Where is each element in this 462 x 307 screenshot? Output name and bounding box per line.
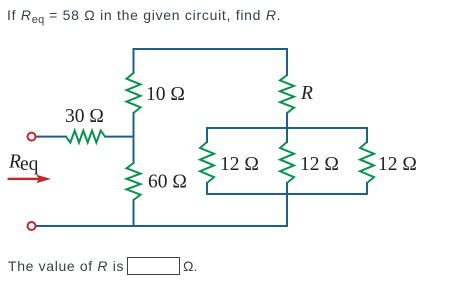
- wire: parallel box left edge leads: [206, 128, 208, 194]
- terminal: top input terminal: [28, 133, 36, 141]
- wire: parallel box right edge leads: [366, 128, 368, 194]
- svg-text:12 Ω: 12 Ω: [300, 154, 339, 175]
- resistor 12-ohm left: [200, 142, 214, 183]
- resistor 30-ohm: [66, 131, 105, 143]
- wire: middle 12-ohm bottom lead: [286, 183, 288, 194]
- resistor R: [280, 75, 294, 113]
- resistor 12-ohm middle: [280, 142, 294, 183]
- wire: between node A and 60-ohm top lead: [133, 137, 135, 163]
- arrow: Req direction arrow: [8, 175, 51, 184]
- wire: node A up to 10-ohm bottom lead: [133, 113, 135, 137]
- title text: [7, 7, 281, 23]
- wire: 60-ohm bottom lead down to bottom rail: [133, 200, 135, 226]
- omega unit after box: [183, 258, 197, 274]
- terminal: bottom input terminal: [28, 222, 36, 230]
- resistor 10-ohm: [127, 73, 141, 113]
- svg-text:60 Ω: 60 Ω: [148, 172, 187, 193]
- svg-text:12 Ω: 12 Ω: [220, 154, 259, 175]
- wire: bottom rail from bottom terminal to middle branch: [36, 194, 287, 226]
- wire: parallel box top edge: [207, 127, 367, 129]
- svg-text:12 Ω: 12 Ω: [378, 154, 417, 175]
- svg-text:R: R: [300, 83, 313, 104]
- resistor 12-ohm right: [360, 142, 374, 183]
- svg-text:30 Ω: 30 Ω: [65, 106, 104, 127]
- wire: top terminal to 30-ohm resistor: [36, 136, 66, 138]
- wire: 30-ohm resistor to node A: [105, 136, 134, 138]
- wire: 10-ohm top lead, top rail across, down to R top lead: [134, 49, 288, 75]
- svg-text:eq: eq: [20, 154, 39, 175]
- wire: R bottom lead into parallel box top: [286, 113, 288, 142]
- svg-text:10 Ω: 10 Ω: [146, 84, 185, 105]
- wire: parallel box bottom edge: [207, 193, 367, 195]
- resistor 60-ohm: [127, 163, 141, 200]
- bottom answer line: [8, 258, 124, 274]
- answer input box: [127, 257, 180, 275]
